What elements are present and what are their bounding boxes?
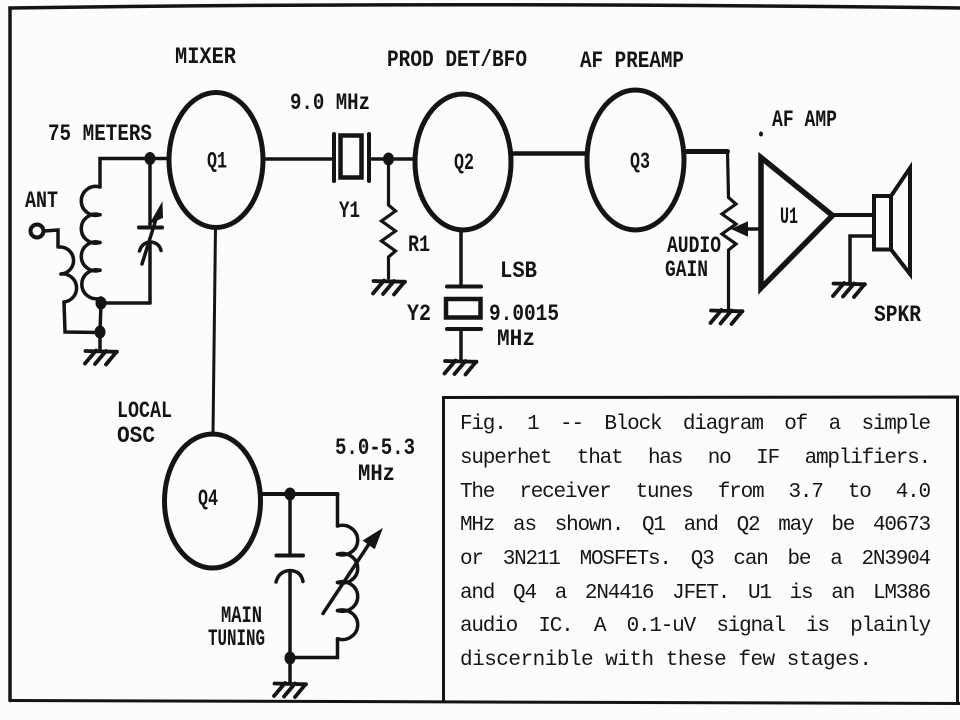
svg-text:MHz: MHz (497, 326, 535, 352)
svg-text:Q2: Q2 (454, 150, 474, 176)
svg-text:GAIN: GAIN (665, 257, 708, 283)
svg-text:TUNING: TUNING (208, 626, 265, 652)
svg-text:OSC: OSC (117, 423, 155, 449)
svg-text:Y2: Y2 (407, 301, 431, 327)
svg-text:5.0-5.3: 5.0-5.3 (335, 435, 415, 461)
svg-text:LSB: LSB (500, 258, 537, 284)
svg-text:MIXER: MIXER (175, 44, 236, 70)
svg-text:AUDIO: AUDIO (667, 233, 721, 259)
svg-text:U1: U1 (780, 204, 798, 230)
svg-text:ANT: ANT (25, 188, 58, 214)
svg-text:LOCAL: LOCAL (117, 398, 172, 424)
svg-text:Q3: Q3 (630, 149, 650, 175)
svg-text:Q4: Q4 (198, 486, 218, 512)
svg-text:R1: R1 (408, 232, 430, 258)
svg-text:MHz: MHz (358, 461, 395, 487)
svg-text:SPKR: SPKR (874, 302, 921, 328)
svg-text:9.0 MHz: 9.0 MHz (290, 90, 370, 116)
svg-text:AF AMP: AF AMP (772, 107, 837, 133)
svg-text:9.0015: 9.0015 (489, 301, 559, 327)
svg-text:Y1: Y1 (339, 198, 360, 224)
svg-text:PROD DET/BFO: PROD DET/BFO (387, 47, 527, 73)
svg-text:AF PREAMP: AF PREAMP (580, 48, 684, 74)
svg-text:Q1: Q1 (207, 149, 227, 175)
svg-text:75 METERS: 75 METERS (48, 121, 152, 147)
